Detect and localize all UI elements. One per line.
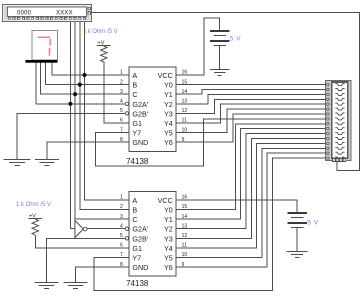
svg-text:A: A	[132, 196, 137, 205]
svg-text:A: A	[132, 71, 137, 80]
svg-text:10: 10	[182, 252, 188, 258]
svg-text:Y5: Y5	[164, 129, 173, 138]
svg-text:C: C	[132, 215, 137, 224]
svg-text:VCC: VCC	[158, 71, 173, 80]
svg-text:2: 2	[120, 79, 123, 85]
svg-text:Y4: Y4	[164, 119, 173, 128]
svg-text:1: 1	[120, 195, 123, 201]
svg-text:G1: G1	[132, 119, 142, 128]
svg-text:Y2: Y2	[164, 100, 173, 109]
svg-text:G1: G1	[132, 244, 142, 253]
svg-text:16: 16	[182, 195, 188, 201]
svg-text:9: 9	[182, 137, 185, 143]
svg-text:1: 1	[120, 70, 123, 76]
svg-text:B: B	[132, 81, 137, 90]
svg-text:5: 5	[120, 108, 123, 114]
svg-text:5 V: 5 V	[230, 36, 241, 43]
svg-text:Y6: Y6	[164, 263, 173, 272]
svg-text:12: 12	[182, 233, 188, 239]
svg-text:+V: +V	[29, 213, 36, 219]
svg-text:15: 15	[182, 204, 188, 210]
svg-text:C: C	[132, 90, 137, 99]
svg-text:7: 7	[120, 127, 123, 133]
svg-text:13: 13	[182, 223, 188, 229]
svg-text:3: 3	[120, 214, 123, 220]
svg-text:12: 12	[182, 108, 188, 114]
svg-text:2: 2	[120, 204, 123, 210]
svg-text:Y1: Y1	[164, 90, 173, 99]
svg-text:4: 4	[120, 223, 123, 229]
svg-text:+V: +V	[98, 40, 105, 46]
svg-text:Y6: Y6	[164, 138, 173, 147]
svg-text:Y7: Y7	[132, 129, 141, 138]
svg-text:k Ohm /5 V: k Ohm /5 V	[88, 29, 118, 35]
svg-text:Y3: Y3	[164, 234, 173, 243]
svg-text:G2A′: G2A′	[132, 100, 148, 109]
svg-text:XXXX: XXXX	[56, 11, 73, 17]
svg-text:74138: 74138	[126, 157, 149, 166]
svg-text:14: 14	[182, 89, 188, 95]
svg-text:8: 8	[120, 262, 123, 268]
svg-text:Y0: Y0	[164, 206, 173, 215]
svg-text:Y1: Y1	[164, 215, 173, 224]
svg-text:Y2: Y2	[164, 225, 173, 234]
svg-text:GND: GND	[132, 138, 148, 147]
svg-text:5: 5	[120, 233, 123, 239]
svg-text:11: 11	[182, 243, 187, 249]
svg-text:VCC: VCC	[158, 196, 173, 205]
svg-text:8: 8	[120, 137, 123, 143]
svg-text:11: 11	[182, 118, 187, 124]
svg-text:1 k Ohm /5 V: 1 k Ohm /5 V	[16, 202, 51, 208]
svg-text:14: 14	[182, 214, 188, 220]
svg-text:Y7: Y7	[132, 254, 141, 263]
svg-text:6: 6	[120, 118, 123, 124]
svg-text:GND: GND	[132, 263, 148, 272]
svg-text:G2A′: G2A′	[132, 225, 148, 234]
svg-text:G2B′: G2B′	[132, 109, 148, 118]
svg-text:Y4: Y4	[164, 244, 173, 253]
svg-text:16: 16	[182, 70, 188, 76]
svg-text:3: 3	[120, 89, 123, 95]
svg-text:74138: 74138	[126, 279, 149, 288]
svg-text:15: 15	[182, 79, 188, 85]
svg-text:G2B′: G2B′	[132, 234, 148, 243]
svg-text:10: 10	[182, 127, 188, 133]
svg-text:0000: 0000	[17, 11, 32, 17]
svg-text:9: 9	[182, 262, 185, 268]
svg-text:Y3: Y3	[164, 109, 173, 118]
svg-text:5 V: 5 V	[307, 219, 318, 226]
svg-text:13: 13	[182, 99, 188, 105]
svg-text:7: 7	[120, 252, 123, 258]
svg-text:4: 4	[120, 99, 123, 105]
svg-text:Y5: Y5	[164, 254, 173, 263]
svg-text:B: B	[132, 206, 137, 215]
svg-text:6: 6	[120, 243, 123, 249]
svg-text:Y0: Y0	[164, 81, 173, 90]
